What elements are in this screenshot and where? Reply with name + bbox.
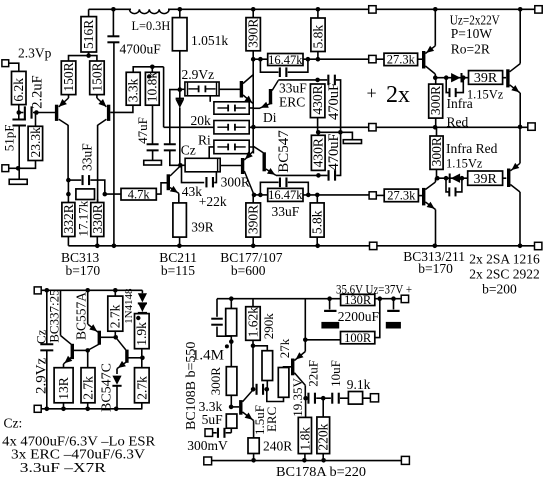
resistor 300R lower label bbox=[429, 137, 444, 166]
wire Qb emitter vert bbox=[87, 290, 89, 324]
wire 220k bottom bbox=[322, 454, 324, 461]
svg-text:516R: 516R bbox=[81, 20, 96, 49]
resistor 220k label bbox=[316, 423, 331, 450]
label 470uF upper bbox=[326, 83, 342, 120]
wire 240R bottom bbox=[253, 454, 255, 460]
svg-text:2x 2SC 2922: 2x 2SC 2922 bbox=[469, 267, 540, 282]
resistor 6.2k bbox=[12, 71, 27, 104]
capacitor bypass upper bbox=[279, 67, 288, 77]
capacitor 300R bbox=[205, 177, 214, 187]
transistor Q3 bar bbox=[240, 81, 243, 98]
node bl top 2.7k bbox=[113, 288, 118, 293]
terminal top mid bbox=[369, 6, 376, 13]
wire 430R upper bottom bbox=[317, 118, 319, 133]
svg-text:1N4148: 1N4148 bbox=[123, 288, 135, 324]
label 3.3k bm bbox=[199, 399, 223, 414]
wire 2.7k bl1 top bbox=[87, 350, 89, 367]
svg-text:470uF: 470uF bbox=[326, 83, 342, 120]
wire rail2l right bbox=[376, 194, 384, 196]
label 19.35V bbox=[290, 378, 305, 417]
svg-text:5.8k: 5.8k bbox=[310, 210, 325, 234]
node bias1 upper bbox=[433, 75, 438, 80]
wire BC211 emitter to 39R bbox=[178, 193, 180, 203]
resistor 130R bbox=[341, 294, 375, 305]
svg-text:39R: 39R bbox=[191, 220, 214, 235]
resistor 390R lower label bbox=[246, 205, 261, 234]
node 430R lower bottom bbox=[316, 173, 321, 178]
Qa emitter bbox=[64, 356, 73, 364]
resistor 1.4M bbox=[226, 309, 237, 336]
wire 4700uF down to bottom rail bbox=[113, 43, 115, 246]
wire rail3 right bbox=[376, 126, 528, 128]
wire top rail right bbox=[376, 8, 535, 10]
svg-text:27.3k: 27.3k bbox=[387, 53, 416, 67]
wire diodes to 1.9k bbox=[141, 312, 143, 314]
wire 516R bottom stub bbox=[88, 52, 90, 56]
wire 330R top bbox=[97, 199, 99, 203]
node 39R bottom rail bbox=[177, 244, 182, 249]
wire 10uF right bbox=[340, 397, 348, 399]
node BC178 emitter/100R bbox=[303, 338, 308, 343]
svg-text:27.3k: 27.3k bbox=[387, 189, 416, 203]
wire rail2 left bbox=[253, 58, 268, 60]
node bias2 upper bbox=[444, 75, 449, 80]
wire 4700uF top bbox=[112, 9, 114, 36]
node 2.7k bl1 rail bbox=[85, 407, 90, 412]
wire 220k top stub bbox=[322, 398, 324, 417]
capacitor 1.5uF bbox=[256, 384, 265, 395]
capacitor 33uF mid bbox=[82, 175, 91, 185]
node 4700uF rail bbox=[112, 244, 117, 249]
driver upper emitter bbox=[425, 46, 435, 54]
wire Qc emitter bbox=[116, 369, 118, 374]
transistor Di collector bbox=[272, 80, 278, 90]
capacitor Cz detail bbox=[40, 343, 53, 351]
node top rail / 4700uF bbox=[111, 7, 116, 12]
wire bigbox left stub bbox=[180, 164, 185, 166]
svg-text:P=10W: P=10W bbox=[451, 26, 493, 41]
capacitor Cz bbox=[164, 143, 176, 151]
transistor Qa bar bbox=[71, 344, 74, 359]
wire 300Rcap right bbox=[214, 172, 216, 183]
label Di bbox=[263, 110, 277, 125]
svg-text:300mV: 300mV bbox=[187, 438, 228, 453]
resistor 23.3k bbox=[28, 126, 42, 160]
node spine rail2-lower bbox=[252, 193, 257, 198]
wire Cz bottom bbox=[170, 151, 180, 165]
wire to 2.2uF bbox=[19, 112, 24, 114]
resistor 3.3k label bbox=[126, 78, 141, 102]
wire box4 left jog bbox=[209, 147, 214, 158]
svg-text:17.17k: 17.17k bbox=[76, 200, 91, 236]
node top rail / output bbox=[518, 7, 523, 12]
ground 47uF bbox=[144, 160, 162, 165]
output upper emitter bbox=[510, 85, 521, 93]
terminal input ground bbox=[2, 165, 9, 172]
resistor 100R bbox=[341, 332, 375, 344]
diode infra red upper bbox=[451, 73, 462, 82]
resistor 10.8k label bbox=[145, 72, 160, 103]
resistor 1.9k label bbox=[134, 322, 149, 346]
wire 47uF to ground bbox=[152, 151, 154, 160]
wire 330R bottom bbox=[96, 237, 98, 246]
node 1.5uF right bbox=[265, 387, 270, 392]
node bm top 2200uF bbox=[327, 296, 332, 301]
Q4 emitter bbox=[244, 151, 253, 160]
wire zobel to ground bbox=[318, 132, 352, 139]
wire 5.8k lower top bbox=[316, 195, 318, 203]
capacitor box 2.9Vz bbox=[185, 82, 219, 96]
wire 390R top stub bbox=[252, 9, 254, 17]
svg-text:39R: 39R bbox=[474, 71, 498, 86]
resistor 390R upper label bbox=[246, 19, 261, 48]
label 1.051k bbox=[191, 33, 228, 48]
note line2 bbox=[11, 448, 145, 463]
resistor 27k bbox=[278, 368, 289, 398]
label ERC bm bbox=[264, 407, 279, 432]
resistor 3.3k bbox=[126, 72, 140, 105]
wire bias cap loop lower bbox=[446, 178, 462, 192]
svg-text:470uF: 470uF bbox=[326, 133, 342, 170]
node zobel right bbox=[338, 130, 343, 135]
svg-text:13R: 13R bbox=[56, 377, 71, 400]
resistor 16.47k upper bbox=[268, 54, 303, 66]
wire 1.051k top stub bbox=[179, 9, 181, 17]
driver lower emitter bbox=[425, 202, 435, 210]
wire bias row upper bbox=[435, 77, 468, 79]
node BC108 base bbox=[229, 405, 234, 410]
node bias2 lower bbox=[444, 176, 449, 181]
svg-text:b=115: b=115 bbox=[161, 263, 195, 278]
wire 1.62k top bbox=[252, 299, 254, 307]
svg-text:2.7k: 2.7k bbox=[134, 376, 149, 400]
label P=10W bbox=[451, 26, 493, 41]
node Qb base bbox=[113, 335, 118, 340]
label 51pF bbox=[1, 125, 16, 152]
wire 4.7k left bbox=[105, 193, 121, 195]
label 2.2uF bbox=[29, 75, 45, 108]
svg-text:150R: 150R bbox=[89, 62, 104, 91]
wire 39R upper to output base bbox=[503, 77, 507, 79]
label BC178A b=220 bbox=[276, 464, 366, 479]
wire Di emitter to spine bbox=[253, 107, 260, 109]
label Infra upper bbox=[447, 96, 473, 111]
wire 300R bm bottom bbox=[230, 395, 232, 407]
svg-text:b=600: b=600 bbox=[231, 263, 266, 278]
node output lower rail bbox=[518, 244, 523, 249]
svg-text:2200uF: 2200uF bbox=[338, 309, 380, 324]
transistor Q1 BC313 bar bbox=[55, 105, 58, 121]
wire diode to Cz node bbox=[179, 108, 181, 166]
label 2.9Vz bbox=[182, 67, 215, 82]
capacitor 1.15Vz lower bbox=[448, 187, 456, 196]
terminal bm top right bbox=[401, 295, 408, 302]
node Qa base bbox=[85, 348, 90, 353]
svg-text:Cz: Cz bbox=[181, 142, 196, 157]
wire 2.9Vz left stub bbox=[180, 88, 185, 90]
label BC557A bbox=[73, 292, 88, 340]
wire bypass loop lower bbox=[260, 182, 308, 195]
note line3 bbox=[20, 461, 107, 476]
BC211 collector bbox=[170, 166, 180, 176]
svg-text:240R: 240R bbox=[263, 439, 292, 454]
resistor 430R upper bbox=[310, 84, 325, 118]
wire 5uF to 3.3k bbox=[226, 432, 232, 434]
wire 150R right bottom bbox=[96, 95, 98, 98]
wire Di collector line bbox=[278, 79, 327, 81]
wire 51pF to ground node bbox=[18, 126, 20, 179]
wire 1.4M top stub bbox=[230, 299, 232, 309]
node spine rail2 bbox=[251, 57, 256, 62]
svg-text:3.3uF –X7R: 3.3uF –X7R bbox=[20, 461, 107, 476]
svg-text:100R: 100R bbox=[344, 331, 372, 345]
wire 300R lower top bbox=[436, 127, 438, 136]
wire 1.8k bottom bbox=[304, 454, 306, 461]
svg-text:16.47k: 16.47k bbox=[268, 53, 303, 67]
wire 430R lower row bbox=[276, 174, 327, 176]
BC178 emitter bbox=[294, 352, 305, 361]
label 4700uF bbox=[120, 42, 162, 57]
svg-text:1.62k: 1.62k bbox=[245, 307, 260, 338]
wire divider to mid rail bbox=[163, 67, 165, 128]
wire 2200uF top bbox=[329, 299, 331, 310]
svg-text:1.051k: 1.051k bbox=[191, 33, 228, 48]
transistor Q2 emitter bbox=[97, 98, 107, 107]
svg-text:300R: 300R bbox=[429, 137, 444, 166]
diode 1N4148 b bbox=[138, 303, 147, 314]
node 13R rail bbox=[61, 407, 66, 412]
svg-text:BC557A: BC557A bbox=[73, 292, 88, 340]
node top rail / 390R bbox=[251, 7, 256, 12]
node 33uF left bbox=[66, 178, 71, 183]
output lower collector bbox=[510, 185, 520, 193]
wire 27k bottom jog bbox=[267, 389, 284, 401]
label 17.17k bbox=[76, 200, 91, 236]
svg-text:290k: 290k bbox=[261, 313, 276, 340]
BC178 collector bbox=[294, 373, 305, 386]
wire 2.2uF to Q1 base bbox=[33, 112, 55, 114]
svg-text:1.9k: 1.9k bbox=[134, 322, 149, 346]
wire box1-box2 jog bbox=[209, 96, 211, 102]
svg-text:2x 2SA 1216: 2x 2SA 1216 bbox=[469, 252, 540, 267]
resistor 1.62k bbox=[246, 307, 261, 341]
label BC108B b=550 bbox=[184, 342, 199, 430]
resistor 2.7k bl3 label bbox=[134, 376, 149, 400]
label 27k bbox=[277, 338, 292, 358]
diode infra red lower bbox=[449, 174, 460, 183]
svg-text:b=170: b=170 bbox=[418, 261, 453, 276]
resistor 27.3k upper bbox=[384, 53, 418, 65]
wire 470uF lower up bbox=[336, 132, 340, 175]
resistor 300R upper bbox=[429, 84, 443, 118]
node top rail / 5.8k bbox=[316, 7, 321, 12]
Q4 collector bbox=[244, 171, 254, 195]
svg-text:BC178A b=220: BC178A b=220 bbox=[276, 464, 366, 479]
wire 1.5uF right bbox=[264, 388, 267, 390]
wire middle spine bbox=[252, 59, 254, 152]
node 2.9Vz left bbox=[178, 87, 183, 92]
svg-text:220k: 220k bbox=[316, 423, 331, 450]
wire 39R lower to output base bbox=[503, 177, 507, 179]
label b=170 right bbox=[418, 261, 453, 276]
svg-text:2x: 2x bbox=[386, 82, 410, 108]
wire bl cz branch bottom bbox=[46, 351, 48, 409]
resistor 330R bbox=[91, 203, 104, 237]
wire 516R top stub bbox=[88, 9, 90, 16]
resistor 390R upper bbox=[246, 18, 260, 51]
wire rail2 right bbox=[376, 58, 384, 60]
driver lower collector bbox=[425, 182, 435, 190]
resistor 39R upper label bbox=[474, 71, 498, 86]
resistor 430R lower label bbox=[311, 138, 326, 167]
label 39R mid bbox=[191, 220, 214, 235]
node 1.9k bottom bbox=[140, 356, 145, 361]
node top rail / 1.051k bbox=[178, 7, 183, 12]
svg-text:16.47k: 16.47k bbox=[268, 188, 303, 202]
wire bottom rail left bbox=[68, 245, 369, 247]
wire driver lower collector bbox=[435, 178, 437, 182]
resistor 150R left bbox=[61, 61, 76, 95]
svg-text:332R: 332R bbox=[61, 204, 76, 233]
label 1.5uF bbox=[252, 405, 267, 435]
svg-text:4.7k: 4.7k bbox=[128, 187, 151, 201]
transistor Q5 BC547 bar bbox=[263, 152, 266, 171]
wire 300R lower bottom bbox=[436, 169, 438, 178]
node bm top cap2 bbox=[391, 296, 396, 301]
resistor 16.47k lower bbox=[268, 188, 303, 201]
wire 4.7k to base bbox=[156, 183, 167, 194]
resistor 300R upper label bbox=[428, 86, 443, 115]
capacitor out bm bbox=[386, 310, 401, 329]
svg-text:Ri: Ri bbox=[198, 132, 211, 147]
wire driver upper collector bbox=[434, 74, 436, 78]
wire 33uF right bbox=[90, 180, 104, 194]
wire bm bottom rail bbox=[212, 460, 402, 462]
svg-text:BC108B b=550: BC108B b=550 bbox=[184, 342, 199, 430]
label Cz: bbox=[4, 416, 23, 431]
node top rail / driver bbox=[433, 7, 438, 12]
transistor Di bar bbox=[269, 89, 272, 104]
transistor Q3 collector bbox=[243, 75, 253, 84]
transistor Qb bar bbox=[98, 331, 101, 345]
wire 300mV to cap bbox=[213, 432, 217, 434]
resistor 39R upper bbox=[469, 71, 503, 85]
capacitor 470uF lower bbox=[328, 170, 337, 181]
label 9.1k bbox=[347, 377, 371, 392]
wire 2.7k bl3 top bbox=[141, 358, 143, 368]
terminal rail3 right bbox=[528, 123, 535, 130]
node 220k rail bbox=[321, 458, 326, 463]
wire Qa base bbox=[74, 349, 88, 351]
resistor 332R label bbox=[61, 204, 76, 233]
wire output upper emitter bbox=[519, 93, 521, 127]
wire input to 6.2k bbox=[9, 63, 19, 71]
wire 23.3k top bbox=[35, 113, 37, 127]
BC108 collector bbox=[243, 390, 254, 402]
wire bigbox right to Q4 base bbox=[220, 165, 241, 167]
wire 390R lower top bbox=[252, 195, 254, 203]
resistor 39R lower bbox=[468, 171, 503, 185]
label 33uF ERC bbox=[279, 80, 307, 95]
wire divider tops bbox=[133, 67, 163, 73]
wire 10.8k bottom bbox=[152, 105, 154, 144]
wire bm top rail bbox=[217, 298, 401, 300]
label 1.15Vz upper bbox=[467, 87, 504, 101]
svg-text:10.8k: 10.8k bbox=[145, 72, 160, 103]
capacitor 2200uF bbox=[321, 310, 339, 329]
resistor 150R left label bbox=[61, 62, 76, 91]
wire 300R upper top bbox=[435, 78, 437, 84]
resistor 300R lower bbox=[430, 136, 443, 169]
wire cap2 top bbox=[393, 299, 395, 310]
wire bm RC cap branch bbox=[216, 299, 218, 317]
marker dot 1.4M bbox=[225, 344, 229, 348]
node input ground bbox=[16, 166, 21, 171]
wire 3.3k bm bottom bbox=[230, 428, 232, 433]
wire output lower collector bbox=[519, 192, 521, 246]
Qb emitter diag bbox=[88, 324, 98, 332]
wire 27k top to base bbox=[284, 366, 292, 369]
wire 300Rcap left bbox=[182, 165, 205, 182]
svg-text:33uF: 33uF bbox=[79, 143, 94, 171]
wire rail3 left bbox=[249, 126, 369, 128]
wire box2 right stub bbox=[249, 107, 253, 109]
svg-text:35.6V Uz=37V +: 35.6V Uz=37V + bbox=[336, 282, 412, 297]
svg-text:300R: 300R bbox=[428, 86, 443, 115]
transistor Q1 emitter bbox=[59, 98, 69, 107]
resistor 4.7k label bbox=[128, 187, 151, 201]
resistor 5.8k upper label bbox=[310, 25, 325, 49]
label b=170 bbox=[66, 263, 101, 278]
wire rail2l left bbox=[254, 194, 268, 196]
output upper collector bbox=[510, 64, 521, 72]
node bl top qb bbox=[85, 288, 90, 293]
label 10uF bbox=[328, 360, 343, 387]
resistor 290k bbox=[262, 351, 273, 381]
resistor 330R label bbox=[90, 204, 105, 233]
wire BC108 base bbox=[231, 406, 239, 408]
transistor BC211 bar bbox=[167, 174, 170, 190]
node bl top cz bbox=[45, 288, 50, 293]
svg-text:430R: 430R bbox=[311, 138, 326, 167]
label 20k bbox=[191, 113, 212, 128]
label b=600 bbox=[231, 263, 266, 278]
svg-text:47uF: 47uF bbox=[135, 117, 150, 144]
label 2.9Vz rotated bbox=[33, 357, 49, 394]
resistor 332R bbox=[62, 203, 75, 237]
label BC313 bbox=[61, 250, 100, 265]
wire BC108 emitter bbox=[253, 421, 255, 439]
node bias3 upper bbox=[461, 75, 466, 80]
label Cz bbox=[181, 142, 196, 157]
resistor 5.8k lower bbox=[310, 203, 324, 237]
resistor 27.3k lower bbox=[384, 189, 418, 202]
ground input bbox=[9, 179, 27, 184]
diode 1N4148 a bbox=[138, 293, 147, 304]
label 33uF lower bbox=[272, 204, 300, 219]
node 2.2uF/23.3k bbox=[34, 110, 39, 115]
wire 6.2k bottom bbox=[18, 105, 20, 120]
node input bias bbox=[17, 110, 22, 115]
label 22uF bbox=[305, 360, 320, 387]
label Infra Red lower bbox=[446, 141, 498, 156]
svg-text:Cz:: Cz: bbox=[4, 416, 23, 431]
resistor 3.3k bm bbox=[226, 414, 237, 428]
node bypass left upper bbox=[258, 57, 263, 62]
wire 290k bottom bbox=[266, 381, 268, 390]
node zobel left bbox=[316, 130, 321, 135]
resistor 1.051k bbox=[172, 18, 187, 51]
